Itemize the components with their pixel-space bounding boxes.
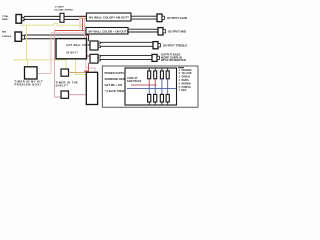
- jack1: [90, 41, 100, 50]
- resistors top row: [148, 69, 170, 89]
- wire: pink square B to amp: [69, 94, 87, 96]
- power supply inner box: [125, 68, 177, 105]
- wire: rose into square B: [55, 96, 62, 98]
- connector A (RCA plug): [16, 15, 24, 24]
- svg-text:PROBLEM BOX?: PROBLEM BOX?: [15, 83, 42, 87]
- svg-text:ORANGE: ORANGE: [182, 69, 193, 72]
- wire: pink drop near box1: [79, 18, 81, 31]
- svg-text:HOT WALL COLOR: HOT WALL COLOR: [67, 44, 93, 47]
- wire: red drop to square B: [54, 31, 56, 97]
- label: power supply text: [105, 71, 127, 93]
- wire: orange square A to amp: [69, 72, 87, 74]
- box1: hot wall volume: [86, 13, 131, 21]
- wire: maroon into box1: [79, 15, 87, 17]
- wire: lead box1 to output gain: [131, 16, 157, 19]
- label: red note inside: [127, 77, 142, 83]
- inline volume control component: [60, 13, 64, 22]
- wire: shielded lead A: [24, 16, 79, 19]
- connector output bass: [152, 54, 159, 61]
- svg-text:OUTPUT MID: OUTPUT MID: [168, 30, 186, 34]
- wire: yellow net: [13, 24, 86, 75]
- wire: pink bus left: [51, 32, 86, 34]
- svg-text:OUTPUT TREBLE: OUTPUT TREBLE: [163, 43, 187, 47]
- svg-text:MY WALL COLOR I AM OUT?: MY WALL COLOR I AM OUT?: [89, 15, 129, 19]
- legend: wire colors: [179, 69, 193, 92]
- svg-text:POWER SUPPLY: POWER SUPPLY: [105, 71, 127, 75]
- connector output mid: [158, 28, 165, 35]
- svg-text:RED: RED: [182, 90, 187, 92]
- svg-text:MY WALL COLOR + ON OUT?: MY WALL COLOR + ON OUT?: [89, 30, 129, 34]
- label: input C note: [2, 32, 12, 38]
- box2: hot wall color out: [86, 28, 128, 35]
- wire: red feed to box2: [55, 30, 87, 32]
- label: timer in the shelf: [56, 81, 79, 88]
- wire: pink into amp box top: [86, 47, 95, 72]
- svg-text:WHITE: WHITE: [182, 80, 190, 82]
- svg-text:GET ME + OR: GET ME + OR: [105, 83, 122, 87]
- wire: red into jack2: [82, 19, 84, 31]
- jack2: [90, 54, 100, 63]
- wire: lead box2 to output mid: [128, 29, 158, 32]
- svg-text:2 X WATT: 2 X WATT: [55, 6, 65, 9]
- svg-text:SOMEONE HERE: SOMEONE HERE: [105, 77, 127, 81]
- svg-text:SHELF?: SHELF?: [56, 84, 69, 88]
- svg-text:TOTAL: TOTAL: [2, 15, 9, 18]
- svg-text:YELLOW: YELLOW: [182, 73, 193, 75]
- square1 with yellow in, pink out: [25, 67, 38, 79]
- svg-text:IN BUY?: IN BUY?: [67, 52, 79, 55]
- square A: [61, 69, 69, 76]
- svg-text:SAW TRACE: SAW TRACE: [127, 80, 142, 83]
- connector output treble: [153, 42, 160, 49]
- svg-text:BROWN: BROWN: [182, 83, 191, 85]
- amp tall box: [86, 72, 97, 104]
- red bus: [131, 84, 157, 86]
- leads red bus to bottom: [149, 85, 168, 94]
- power supply outer box: [102, 66, 198, 107]
- resistors bottom row: [148, 94, 170, 105]
- wire: pink into jack1: [85, 19, 91, 44]
- square B: [61, 91, 69, 98]
- wire: tan into box1: [79, 18, 87, 20]
- wire: lead jack1 to output treble: [101, 42, 154, 46]
- wire: shielded lead C to jack1: [25, 35, 89, 41]
- svg-text:PURPLE: PURPLE: [182, 87, 192, 89]
- connector C (RCA plug): [15, 32, 25, 41]
- svg-text:WIRE?: WIRE?: [2, 19, 9, 21]
- legend: black dash: [178, 67, 184, 69]
- connector output gain: [157, 14, 164, 22]
- label: input A note: [2, 15, 9, 21]
- wire: red jog to amp box: [85, 63, 89, 72]
- svg-text:WITH CROSSOVER: WITH CROSSOVER: [161, 58, 186, 62]
- svg-text:VOLUME CONTROL: VOLUME CONTROL: [54, 9, 74, 11]
- label: volume control title: [54, 6, 74, 12]
- svg-text:GREEN: GREEN: [182, 77, 191, 79]
- svg-text:OUTPUT GAIN: OUTPUT GAIN: [167, 16, 187, 20]
- svg-text:* A BLUE TREB?: * A BLUE TREB?: [105, 89, 127, 93]
- blue bus: [127, 87, 176, 89]
- big box: wall color in buy: [56, 39, 87, 59]
- wire: pink from square1: [37, 73, 51, 75]
- wire: pink drop to square1 lead: [50, 33, 52, 74]
- svg-text:RED: RED: [2, 32, 7, 34]
- wire: lead jack2 to output bass: [101, 56, 153, 60]
- svg-text:2 SINGLE: 2 SINGLE: [2, 36, 12, 38]
